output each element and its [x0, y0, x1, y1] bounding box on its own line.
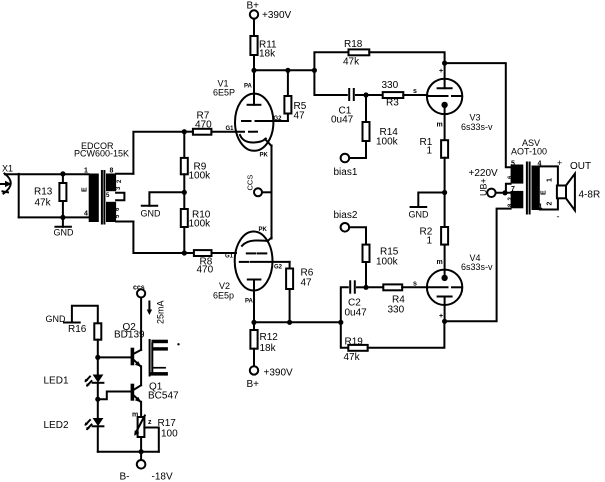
svg-text:B+: B+ [247, 1, 260, 12]
svg-text:-18V: -18V [152, 472, 173, 482]
svg-text:1: 1 [427, 146, 433, 157]
wire [97, 426, 99, 451]
svg-text:AOT-100: AOT-100 [511, 147, 547, 157]
svg-text:LED2: LED2 [44, 420, 69, 431]
heatsink [150, 340, 180, 376]
svg-text:R12: R12 [260, 332, 279, 343]
svg-text:18k: 18k [260, 343, 277, 354]
svg-text:GND: GND [46, 314, 67, 324]
node [251, 68, 256, 73]
capacitor C1 [314, 70, 366, 125]
node [182, 129, 187, 134]
node [363, 92, 368, 97]
node [442, 190, 447, 195]
trimmer R17 100 [132, 412, 178, 440]
svg-text:bias2: bias2 [334, 210, 358, 221]
svg-text:R17: R17 [158, 418, 177, 429]
svg-text:bias1: bias1 [334, 167, 358, 178]
op tube V1 6E5P [213, 70, 288, 158]
wire [183, 227, 185, 253]
node [363, 285, 368, 290]
svg-text:BC547: BC547 [148, 391, 179, 402]
svg-text:100: 100 [161, 429, 178, 440]
wire [5, 173, 89, 175]
svg-text:V3: V3 [470, 113, 481, 123]
node [95, 355, 100, 360]
svg-text:E: E [82, 187, 89, 192]
svg-text:+220V: +220V [469, 168, 499, 179]
svg-text:2: 2 [547, 202, 554, 206]
svg-text:0u47: 0u47 [331, 115, 354, 126]
resistor R4 330 [366, 281, 427, 316]
transistor Q2 BD139 [114, 322, 145, 367]
ground GND (ccs block) [46, 306, 98, 324]
ground GND (input) [54, 217, 75, 237]
svg-text:BD139: BD139 [114, 330, 145, 341]
wire Q2 emitter to Q1 collector [140, 366, 142, 385]
wire [253, 19, 255, 36]
svg-text:100k: 100k [376, 137, 399, 148]
node [312, 68, 317, 73]
node [442, 319, 447, 324]
svg-text:6s33s-v: 6s33s-v [461, 122, 493, 132]
transistor Q1 BC547 [131, 382, 179, 403]
resistor R6 [286, 262, 314, 325]
svg-text:25mA: 25mA [156, 300, 166, 324]
wire V4 plate to transformer [445, 209, 511, 322]
resistor R16 [68, 323, 101, 374]
wire wiper loop [144, 428, 158, 452]
svg-text:+: + [439, 313, 443, 320]
svg-text:47k: 47k [344, 352, 361, 363]
wire V2 output bus [254, 321, 341, 323]
wire V1 plate bus [254, 69, 314, 71]
node [60, 215, 65, 220]
resistor R2 [420, 227, 449, 278]
transformer T2 ASV AOT-100 [508, 138, 554, 214]
svg-text:5: 5 [511, 161, 515, 168]
svg-text:18k: 18k [259, 49, 276, 60]
resistor R11 [250, 36, 277, 60]
svg-text:B+: B+ [247, 379, 260, 390]
svg-text:-: - [557, 212, 560, 222]
svg-text:4: 4 [84, 211, 88, 218]
svg-text:47: 47 [301, 278, 313, 289]
terminal B- -18V [120, 460, 173, 482]
ccs current source: terminal ccs [133, 285, 145, 298]
CCS terminal (between cathodes) [246, 175, 272, 197]
svg-text:7: 7 [511, 186, 515, 193]
wire V3 plate to transformer [445, 63, 511, 167]
svg-text:330: 330 [382, 80, 399, 91]
power tube V3 6s33s-v [427, 63, 493, 140]
svg-text:100k: 100k [376, 257, 399, 268]
svg-text:R3: R3 [386, 98, 399, 109]
svg-text:470: 470 [197, 265, 214, 276]
svg-text:47: 47 [294, 111, 306, 122]
svg-text:m: m [437, 259, 443, 266]
svg-text:330: 330 [388, 305, 405, 316]
wire transformer secondary bottom [116, 221, 133, 223]
resistor R13 [34, 174, 66, 218]
svg-text:m: m [437, 122, 443, 129]
terminal B+ top [247, 1, 292, 22]
terminal bias2 [334, 210, 367, 245]
svg-text:8: 8 [110, 168, 114, 175]
svg-text:R18: R18 [344, 39, 363, 50]
svg-text:B-: B- [120, 472, 130, 482]
resistor R19 [341, 321, 445, 363]
resistor R12 [250, 320, 278, 354]
node [285, 68, 290, 73]
LED2 [44, 418, 104, 431]
speaker OUT 4-8R [557, 158, 601, 222]
ground GND (cathode) [409, 193, 445, 220]
svg-text:GND: GND [409, 210, 430, 220]
svg-text:1: 1 [547, 178, 554, 182]
node [60, 171, 65, 176]
svg-text:G2: G2 [274, 116, 283, 122]
wire transformer bottom to R8 [133, 222, 194, 254]
svg-text:X1: X1 [2, 164, 13, 174]
wire Q2 base [98, 356, 131, 358]
resistor R10 [181, 209, 211, 230]
svg-text:V2: V2 [219, 281, 230, 291]
terminal B+ bottom [247, 349, 294, 390]
node [182, 250, 187, 255]
node [139, 449, 144, 454]
terminal UB+ +220V [469, 168, 511, 197]
svg-text:47k: 47k [343, 57, 360, 68]
resistor R5 [284, 70, 306, 121]
resistor R1 [420, 137, 449, 227]
svg-text:1: 1 [84, 168, 88, 175]
svg-text:R16: R16 [68, 324, 87, 335]
resistor R3 330 [366, 80, 427, 109]
svg-text:6E5p: 6E5p [213, 291, 234, 301]
resistor R18 [314, 39, 444, 70]
svg-text:47k: 47k [35, 198, 52, 209]
svg-text:m: m [132, 412, 138, 419]
svg-text:z: z [148, 419, 152, 426]
wire secondary bottom [540, 198, 558, 209]
svg-text:470: 470 [195, 120, 212, 131]
current arrow 25mA [147, 300, 166, 324]
wire Q1 base [98, 392, 131, 400]
svg-text:PCW600-15K: PCW600-15K [74, 149, 129, 159]
svg-text:6s33s-v: 6s33s-v [461, 262, 493, 272]
svg-text:1: 1 [427, 236, 433, 247]
svg-text:PA: PA [244, 84, 253, 90]
power tube V4 6s33s-v [427, 253, 493, 321]
wire transformer secondary top [116, 173, 133, 175]
resistor R9 [181, 132, 211, 182]
svg-text:0u47: 0u47 [345, 308, 368, 319]
svg-text:PK: PK [259, 227, 268, 233]
svg-text:+: + [439, 68, 443, 75]
wire cathode link [271, 146, 273, 239]
node [338, 320, 343, 325]
svg-text:PA: PA [245, 299, 254, 305]
wire [19, 216, 89, 218]
wire [140, 298, 142, 350]
svg-text:GND: GND [141, 209, 162, 219]
input jack X1 [1, 164, 14, 194]
wire Q1 emitter down [140, 402, 142, 417]
svg-text:PK: PK [260, 153, 269, 159]
svg-text:R19: R19 [345, 336, 364, 347]
resistor R8 [194, 250, 235, 275]
resistor R14 [363, 95, 399, 148]
svg-text:R13: R13 [34, 187, 53, 198]
svg-text:+390V: +390V [262, 10, 292, 21]
svg-text:+: + [557, 158, 562, 168]
svg-text:6E5P: 6E5P [213, 88, 235, 98]
tube V2 6E5p [213, 227, 290, 322]
wire [253, 55, 255, 70]
svg-text:CCS: CCS [246, 175, 255, 191]
resistor R7 [184, 111, 236, 135]
transformer T1 EDCOR PCW600-15K [74, 141, 129, 224]
svg-text:100k: 100k [189, 171, 212, 182]
svg-text:E: E [541, 190, 548, 195]
resistor R15 [363, 245, 399, 288]
terminal bias1 [334, 141, 367, 178]
capacitor C2 [341, 281, 367, 322]
svg-text:s: s [413, 88, 417, 95]
ground GND (R9/R10 junction) [141, 192, 185, 218]
LED1 [44, 375, 104, 387]
svg-text:4-8R: 4-8R [579, 190, 601, 201]
wire from transformer to grid node [133, 132, 184, 174]
wire input loop [18, 174, 20, 218]
svg-text:100k: 100k [189, 219, 212, 230]
node [442, 61, 447, 66]
wire [183, 174, 185, 209]
wire secondary top [540, 166, 558, 185]
wire bottom rail [98, 451, 159, 453]
wire [97, 383, 99, 418]
svg-text:OUT: OUT [570, 161, 591, 172]
svg-text:+390V: +390V [264, 368, 294, 379]
wire R17 bottom [140, 437, 142, 460]
svg-text:G2: G2 [274, 265, 283, 271]
node [95, 397, 100, 402]
svg-text:s: s [413, 281, 417, 288]
svg-text:G1: G1 [225, 254, 234, 260]
node [182, 190, 187, 195]
svg-text:GND: GND [54, 228, 75, 238]
svg-text:ccs: ccs [133, 285, 145, 292]
svg-text:LED1: LED1 [44, 376, 69, 387]
